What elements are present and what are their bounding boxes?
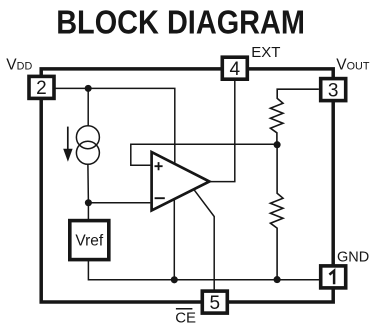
current source I1 (overlapping circles) (76, 126, 99, 165)
wire: Vref node down into Vref block (87, 203, 89, 220)
wire: current source output down to Vref node (87, 164, 90, 203)
wire: VDD branch from pin 2 right to comparator supply point (55, 88, 174, 163)
op-amp U1 (comparator) (152, 152, 210, 210)
voltage reference Vref block (70, 221, 109, 260)
pin 3 box (321, 79, 346, 102)
svg-text:BLOCK DIAGRAM: BLOCK DIAGRAM (56, 4, 305, 41)
svg-text:CE: CE (175, 309, 196, 326)
wire: comparator output to pin 4 (EXT driver line) (209, 81, 234, 182)
wire: VDD junction down to current source (87, 88, 89, 126)
svg-text:3: 3 (328, 80, 339, 101)
node: Vref / inverting input junction (85, 199, 92, 206)
wire: VOUT rail from pin 3 down to pin 1 (GND side) (331, 102, 335, 266)
node: comparator ground junction on GND sense line (171, 276, 178, 283)
node: junction of VDD branch and current source (85, 85, 92, 92)
wire: top VDD rail from pin 2 riser across pin 4 to VOUT riser into pin 3 (41, 69, 333, 78)
resistor R1 (upper divider resistor, VOUT to tap) (270, 89, 319, 145)
svg-text:GND: GND (337, 250, 369, 266)
wire: comparator ground lead down to GND sense line (173, 199, 175, 280)
wire: CE control from comparator to pin 5 (194, 190, 214, 290)
svg-text:EXT: EXT (251, 44, 280, 61)
wire: feedback loop from divider tap to comparator non-inverting (+) input (131, 144, 277, 165)
current direction arrow (63, 127, 72, 162)
svg-text:2: 2 (36, 78, 47, 99)
node: divider bottom junction on GND sense line (274, 276, 281, 283)
pin 5 box (202, 291, 227, 314)
pin 4 box (222, 57, 247, 80)
wire: Vref node to comparator inverting (-) input (88, 202, 150, 204)
resistor R2 (lower divider resistor, tap to GND line) (270, 145, 283, 280)
svg-text:4: 4 (230, 59, 241, 80)
svg-text:5: 5 (210, 293, 221, 314)
pin 1 box (321, 266, 346, 288)
wire: left VDD rail down from pin 2, bottom rail across to pin 1 (41, 100, 333, 303)
wire: Vref block bottom to GND sense line across to pin 1 (88, 260, 319, 280)
svg-text:Vref: Vref (75, 233, 104, 250)
node: divider tap junction between R1 and R2 (274, 141, 281, 148)
label CE-bar (pin 5 net) (175, 309, 196, 327)
pin 2 box (29, 76, 54, 99)
